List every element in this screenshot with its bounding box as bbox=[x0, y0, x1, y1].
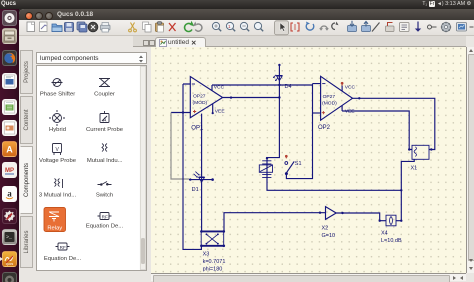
svg-text:Equation De...: Equation De... bbox=[86, 224, 124, 230]
junction X3 pin 3 bbox=[223, 230, 226, 233]
icon port bbox=[428, 25, 437, 29]
amplifier X2 triangle bbox=[326, 207, 337, 220]
icon cut bbox=[129, 23, 137, 32]
node OP1 VEE end bbox=[212, 112, 214, 114]
icon wire label bbox=[386, 23, 395, 32]
diode D1 light arrows bbox=[194, 172, 199, 177]
icon pop out bbox=[362, 22, 371, 32]
op-amp OP2 minus mark bbox=[322, 83, 325, 85]
node OP2 VCC open marker bbox=[341, 83, 343, 86]
wire OP2 output to X1 right bbox=[353, 98, 435, 149]
svg-text:G=10: G=10 bbox=[322, 233, 336, 239]
settings gear tile bbox=[2, 208, 17, 224]
button select (pressed) bbox=[275, 21, 289, 35]
svg-text:Coupler: Coupler bbox=[94, 91, 115, 97]
wire OP1 output bbox=[223, 97, 280, 99]
top system bar bbox=[0, 0, 474, 9]
wire D4 vertical branch bbox=[267, 65, 279, 158]
phase shifter X1 curve bbox=[414, 147, 416, 157]
software center tile bbox=[2, 141, 17, 157]
svg-text:X2: X2 bbox=[322, 226, 329, 232]
svg-text:k=0.7071: k=0.7071 bbox=[203, 259, 226, 265]
svg-text:A: A bbox=[6, 145, 13, 155]
icon ground bbox=[415, 22, 421, 32]
diode D1 symbol bbox=[199, 177, 205, 182]
wire X4 right pin bbox=[396, 220, 401, 222]
qucs tile (focused) bbox=[2, 251, 17, 267]
junction X1 pin 1 bbox=[408, 148, 410, 150]
svg-text:(MOD): (MOD) bbox=[193, 100, 208, 106]
op-amp OP2 plus mark bbox=[322, 111, 325, 114]
junction X3 pin 2 bbox=[200, 245, 203, 248]
icon Switch bbox=[98, 182, 112, 186]
calc tile bbox=[2, 99, 17, 115]
icon save bbox=[65, 23, 74, 32]
switch S1 open contact bbox=[285, 162, 288, 165]
svg-text:Mutual Indu...: Mutual Indu... bbox=[87, 158, 123, 164]
svg-text:X3: X3 bbox=[203, 252, 210, 258]
relay RL coil box bbox=[259, 165, 272, 172]
op-amp U1 OP1 triangle bbox=[190, 77, 222, 118]
svg-text:D4: D4 bbox=[285, 84, 292, 90]
wire OP1 VCC to D4 bbox=[212, 84, 279, 86]
junction D4 output wire bbox=[278, 96, 280, 98]
icon print bbox=[101, 23, 111, 33]
svg-text:a: a bbox=[7, 189, 12, 199]
icon rotate bbox=[306, 22, 314, 31]
svg-text:MP: MP bbox=[5, 168, 14, 174]
relay RL contact ticks bbox=[262, 161, 271, 164]
icon open file bbox=[40, 22, 48, 32]
svg-text:D1: D1 bbox=[192, 187, 199, 193]
icon Relay (selected tile) bbox=[44, 208, 66, 232]
svg-text:RF: RF bbox=[60, 245, 66, 250]
icon Phase Shifter bbox=[52, 79, 63, 87]
switch S1 lever bbox=[287, 161, 295, 172]
wire D4 to OP2 jog bbox=[279, 84, 320, 85]
schematic labels bbox=[191, 84, 417, 273]
op-amp OP1 VEE pin bbox=[212, 104, 214, 113]
junction X3 pin 4 bbox=[223, 245, 226, 248]
icon mirror Y bbox=[332, 22, 339, 30]
wire OP1 inverting input bbox=[183, 84, 190, 113]
wire OP2 plus stub bbox=[313, 112, 321, 114]
wire D1 horizontal bbox=[189, 179, 213, 181]
wire X3 to X2 input bbox=[224, 213, 326, 231]
firefox tile bbox=[2, 50, 17, 66]
junction X2 input bbox=[319, 212, 321, 214]
icon zoom 1:1 bbox=[226, 22, 235, 31]
wire relay to X1 column (long bottom wire) bbox=[267, 179, 401, 190]
launcher bbox=[0, 9, 19, 282]
diode D4 LED bbox=[276, 75, 282, 80]
junction D1 left bbox=[189, 178, 191, 180]
junction X4 right pin bbox=[400, 220, 402, 222]
icon view data bbox=[457, 23, 467, 32]
svg-text:OP1: OP1 bbox=[191, 126, 204, 132]
attenuator X4 box bbox=[386, 215, 396, 226]
junction X1 pin 2 bbox=[430, 148, 432, 150]
op-amp OP2 VEE pin bbox=[341, 105, 343, 111]
icon Current Probe bbox=[100, 111, 109, 124]
svg-text:VEE: VEE bbox=[215, 109, 226, 115]
tabbar nav buttons bbox=[143, 40, 149, 46]
op-amp OP2 VCC pin (open) bbox=[341, 86, 343, 92]
junction X4 left pin bbox=[379, 220, 381, 222]
icon equation bbox=[400, 23, 410, 32]
icon close document bbox=[88, 22, 98, 32]
junction X3 pin 1 bbox=[200, 230, 203, 233]
wire S1 to OP2 plus bbox=[286, 84, 312, 179]
svg-text:>_: >_ bbox=[6, 235, 13, 241]
icon delete bbox=[169, 23, 176, 31]
icon mirror X bbox=[319, 26, 329, 31]
svg-text:OP27: OP27 bbox=[323, 94, 336, 100]
node D4 top end bbox=[278, 64, 280, 66]
icon Voltage Probe bbox=[53, 144, 62, 156]
icon undo bbox=[185, 21, 195, 32]
svg-text:Relay: Relay bbox=[47, 226, 62, 232]
icon zoom in bbox=[212, 22, 221, 31]
diode D4 light arrows bbox=[273, 75, 278, 81]
node D1 right end bbox=[211, 178, 214, 181]
svg-text:Equation De...: Equation De... bbox=[44, 256, 82, 262]
junction OP1 input net bbox=[182, 111, 184, 113]
amazon tile bbox=[2, 186, 17, 202]
svg-text:VCC: VCC bbox=[345, 84, 356, 90]
icon Hybrid bbox=[49, 110, 65, 126]
icon 3 Mutual Inductors bbox=[55, 179, 63, 189]
junction OP2 output bbox=[358, 97, 360, 99]
icon Mutual Inductors bbox=[102, 144, 107, 152]
attenuator X4 inner symbol bbox=[390, 217, 393, 225]
icon save all bbox=[77, 22, 87, 32]
icon redo bbox=[193, 22, 202, 32]
wire X2 output to X4 bbox=[336, 213, 386, 221]
op-amp U2 OP2 triangle bbox=[321, 76, 353, 120]
icon Equation Defined Device bbox=[98, 213, 112, 220]
svg-text:OP27: OP27 bbox=[193, 93, 206, 99]
wire D1 vertical to X3 bbox=[201, 114, 203, 231]
coupler X3 box bbox=[201, 231, 224, 245]
icon copy bbox=[143, 22, 152, 32]
wire selected (grey) feedback bbox=[171, 113, 189, 180]
list scrollbar bbox=[140, 67, 146, 270]
icon zoom fit bbox=[254, 22, 263, 31]
icon simulate bbox=[441, 22, 451, 32]
icon zoom out bbox=[240, 22, 249, 31]
junction X2 output bbox=[341, 212, 343, 214]
coupler X3 cross arrows bbox=[206, 234, 218, 243]
coupler X3 arrow dots bbox=[206, 233, 208, 235]
impress tile bbox=[2, 120, 17, 136]
svg-text:qucs: qucs bbox=[6, 262, 14, 266]
svg-text:phi=180: phi=180 bbox=[203, 267, 223, 273]
app circle tile bbox=[2, 272, 17, 282]
terminal tile bbox=[2, 229, 17, 245]
wire OP1 non-inverting input bbox=[171, 112, 190, 114]
red marks bbox=[193, 82, 343, 158]
icon select marker bbox=[291, 23, 299, 31]
svg-text:VCC: VCC bbox=[214, 84, 225, 90]
wire X1 bottom stub to X4 column bbox=[401, 159, 414, 220]
svg-text:VEE: VEE bbox=[345, 109, 356, 115]
files tile bbox=[2, 28, 17, 44]
svg-text:Current Probe: Current Probe bbox=[86, 127, 124, 133]
svg-text:L=10 dB: L=10 dB bbox=[381, 238, 402, 244]
relay RL coil diagonal bbox=[260, 165, 272, 171]
icon new file bbox=[27, 22, 35, 32]
junction relay wire X1 column bbox=[400, 189, 402, 191]
icon Equation Defined RF Device bbox=[56, 243, 70, 250]
op-amp OP1 minus mark bbox=[192, 83, 195, 85]
svg-text:3 Mutual Ind...: 3 Mutual Ind... bbox=[39, 192, 77, 198]
node S1 open pin marker bbox=[285, 156, 287, 159]
relay RL lower ticks bbox=[262, 174, 271, 177]
svg-text:X1: X1 bbox=[411, 166, 418, 172]
wire OP1 plus net down to X3 bbox=[183, 113, 201, 250]
svg-text:X4: X4 bbox=[381, 231, 388, 237]
junction S1 bottom contact bbox=[285, 172, 288, 175]
svg-text:RF: RF bbox=[102, 215, 108, 220]
op-amp OP1 VCC pin bbox=[211, 85, 213, 91]
svg-text:(MOD): (MOD) bbox=[322, 100, 337, 106]
relay RL vertical pin line bbox=[266, 158, 268, 179]
svg-text:Hybrid: Hybrid bbox=[49, 127, 66, 133]
phase shifter X1 box bbox=[412, 145, 429, 159]
media app tile bbox=[2, 162, 17, 178]
icon wire bbox=[372, 23, 380, 32]
focused arrow bbox=[0, 257, 3, 261]
junction OP1 output bbox=[230, 96, 232, 98]
junction D4 VCC wire bbox=[278, 84, 280, 86]
icon open folder bbox=[52, 24, 62, 32]
svg-text:Switch: Switch bbox=[96, 192, 113, 198]
svg-text:Phase Shifter: Phase Shifter bbox=[40, 91, 75, 97]
svg-text:Voltage Probe: Voltage Probe bbox=[39, 158, 77, 164]
junction relay top pin bbox=[266, 157, 268, 159]
op-amp OP1 plus mark bbox=[193, 110, 196, 113]
svg-text:OP2: OP2 bbox=[318, 125, 331, 131]
icon into subcircuit bbox=[348, 21, 357, 32]
writer tile bbox=[2, 73, 17, 89]
svg-text:S1: S1 bbox=[295, 161, 302, 167]
dash home tile bbox=[2, 10, 17, 26]
wire OP2 VEE to X1 left bbox=[342, 111, 412, 150]
icon Coupler bbox=[99, 79, 110, 87]
icon paste bbox=[156, 22, 164, 32]
